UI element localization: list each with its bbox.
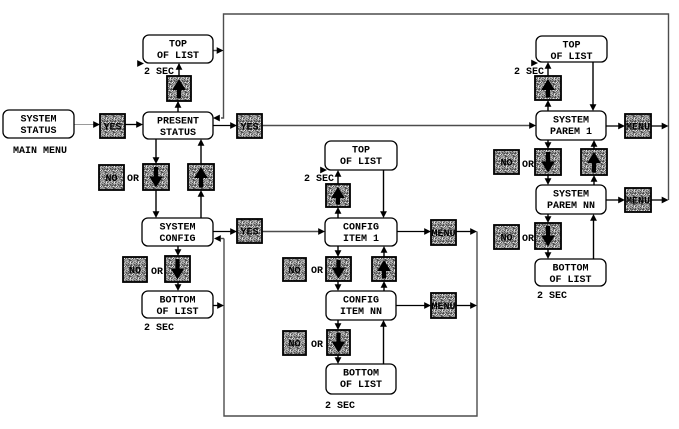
svg-text:TOP: TOP <box>562 41 580 52</box>
svg-text:2 SEC: 2 SEC <box>144 323 174 334</box>
box SYSTEM STATUS <box>3 110 74 138</box>
button MENU (system parem 1) <box>625 114 651 138</box>
button YES (main menu) <box>100 114 125 138</box>
wire present status down to DOWN button <box>155 139 157 159</box>
button DOWN (left) <box>143 164 169 190</box>
button YES (present status) <box>237 114 262 138</box>
wire system config down to DOWN button <box>177 246 179 251</box>
svg-text:YES: YES <box>240 228 258 239</box>
svg-text:OF LIST: OF LIST <box>549 275 591 286</box>
svg-text:CONFIG: CONFIG <box>159 234 195 245</box>
button YES (system config) <box>237 219 262 243</box>
svg-text:SYSTEM: SYSTEM <box>20 115 56 126</box>
wire return rail top (down to present status) <box>224 14 669 200</box>
button MENU (system parem nn) <box>625 188 651 212</box>
arrowhead into right rail (menu parem 1) <box>662 123 669 130</box>
button UP (center mid) <box>372 257 396 281</box>
svg-text:MENU: MENU <box>626 123 650 134</box>
wire MENU to return rail (item nn) <box>456 305 471 307</box>
svg-text:NO: NO <box>105 174 117 185</box>
wire UP button to top of list (left) <box>178 64 180 76</box>
arrowhead into return rail (top of list left) <box>217 47 224 54</box>
arrowhead into config item nn (from bottom of list) <box>380 320 387 327</box>
wire config item 1 to MENU <box>397 231 426 233</box>
box TOP OF LIST (right) <box>536 36 607 63</box>
box TOP OF LIST (center) <box>325 141 397 170</box>
wire rail arrow into system config <box>221 238 224 240</box>
box BOTTOM OF LIST (left) <box>142 291 213 318</box>
box TOP OF LIST (left) <box>143 35 213 63</box>
arrowhead into DOWN button (left) <box>153 157 160 164</box>
button DOWN (left lower) <box>165 256 190 282</box>
button NO (left upper) <box>99 165 124 190</box>
wire MENU to return rail (item 1) <box>456 231 471 233</box>
wire YES to system parem 1 (long) <box>262 125 530 127</box>
svg-text:YES: YES <box>240 123 258 134</box>
arrowhead into system parem 1 (from up) <box>591 140 598 147</box>
svg-text:OR: OR <box>127 174 139 185</box>
svg-text:OF LIST: OF LIST <box>157 51 199 62</box>
wire bottom of list (left) to return rail <box>213 305 219 307</box>
wire YES to config item 1 <box>262 231 321 233</box>
arrowhead into config item 1 (from YES) <box>318 228 325 235</box>
arrowhead into DOWN button (center lower) <box>335 323 342 330</box>
arrowhead into system config (return rail) <box>214 235 221 242</box>
svg-text:OR: OR <box>151 267 163 278</box>
box CONFIG ITEM NN <box>326 291 396 320</box>
svg-text:PAREM NN: PAREM NN <box>547 201 595 212</box>
svg-text:PAREM 1: PAREM 1 <box>550 127 592 138</box>
arrowhead into DOWN button (right) <box>545 142 552 149</box>
wire config item 1 up to UP button <box>337 212 339 218</box>
svg-text:OF LIST: OF LIST <box>340 380 382 391</box>
svg-text:2 SEC: 2 SEC <box>514 67 544 78</box>
arrowhead 2 SEC stub (top of list left) <box>137 60 144 67</box>
svg-text:OR: OR <box>522 160 534 171</box>
arrowhead into top of list center <box>335 170 342 177</box>
wire bottom of list (right) up to system parem nn <box>593 219 595 259</box>
svg-text:2 SEC: 2 SEC <box>144 67 174 78</box>
box BOTTOM OF LIST (right) <box>535 259 606 286</box>
svg-text:OR: OR <box>311 340 323 351</box>
arrowhead into MENU (config item nn) <box>424 302 431 309</box>
wire system config up to UP button <box>200 195 202 218</box>
svg-text:STATUS: STATUS <box>20 126 56 137</box>
wire system parem 1 to MENU <box>606 125 620 127</box>
wire top of list (right) down to system parem 1 <box>592 62 594 106</box>
wire config item nn to MENU <box>396 305 426 307</box>
arrowhead into bottom of list right <box>545 252 552 259</box>
svg-text:NO: NO <box>500 234 512 245</box>
button DOWN (right) <box>535 149 561 175</box>
button NO (right upper) <box>494 150 519 174</box>
box PRESENT STATUS <box>143 112 213 139</box>
svg-text:MAIN MENU: MAIN MENU <box>13 146 67 157</box>
button NO (right lower) <box>494 225 519 249</box>
arrowhead into DOWN button (center) <box>335 250 342 257</box>
svg-text:STATUS: STATUS <box>160 128 196 139</box>
wire UP button to system parem 1 <box>593 145 595 149</box>
svg-text:CONFIG: CONFIG <box>343 223 379 234</box>
svg-text:SYSTEM: SYSTEM <box>553 190 589 201</box>
arrowhead into config item nn (from down) <box>335 284 342 291</box>
button MENU (config item 1) <box>431 220 456 245</box>
wire present status to YES <box>213 125 232 127</box>
arrowhead into return rail (bottom of list left) <box>217 302 224 309</box>
button MENU (config item nn) <box>431 293 456 318</box>
svg-text:SYSTEM: SYSTEM <box>159 223 195 234</box>
wire system parem nn down to DOWN button <box>547 214 549 218</box>
svg-text:ITEM 1: ITEM 1 <box>343 234 379 245</box>
svg-text:MENU: MENU <box>626 197 650 208</box>
button UP (right top) <box>535 76 561 100</box>
wire DOWN button to system config <box>155 190 157 213</box>
arrowhead into YES (present status) <box>230 122 237 129</box>
svg-text:2 SEC: 2 SEC <box>304 174 334 185</box>
arrowhead into config item 1 (from up) <box>381 246 388 253</box>
wire system config to YES <box>213 231 232 233</box>
box SYSTEM CONFIG <box>142 218 213 246</box>
svg-text:2 SEC: 2 SEC <box>325 401 355 412</box>
arrowhead into present status (from YES) <box>136 121 143 128</box>
arrowhead into DOWN button (left lower) <box>175 249 182 256</box>
arrowhead into MENU (system parem 1) <box>618 123 625 130</box>
svg-text:OF LIST: OF LIST <box>156 307 198 318</box>
wire UP button to top of list (right) <box>547 67 549 76</box>
wire YES to present status <box>125 124 138 126</box>
arrowhead into system parem nn (from down) <box>545 178 552 185</box>
wire UP button to config item 1 <box>383 251 385 257</box>
wire DOWN button to system parem nn <box>547 175 549 180</box>
arrowhead into top of list right <box>545 62 552 69</box>
svg-text:MENU: MENU <box>431 229 455 240</box>
box BOTTOM OF LIST (center) <box>326 364 396 394</box>
arrowhead into UP button (left mid) <box>198 190 205 197</box>
arrowhead into UP button (center top) <box>335 207 342 214</box>
wire system parem nn to MENU <box>606 199 620 201</box>
wire DOWN button to config item nn <box>337 281 339 286</box>
button UP (left top) <box>167 76 191 101</box>
arrowhead into UP button (center mid) <box>381 281 388 288</box>
svg-text:OR: OR <box>522 234 534 245</box>
box SYSTEM PAREM 1 <box>536 111 606 140</box>
wire system parem nn up to UP button <box>593 180 595 185</box>
arrowhead into present status (from rail) <box>213 115 220 122</box>
wire config item nn down to DOWN button <box>337 320 339 325</box>
svg-text:BOTTOM: BOTTOM <box>159 296 195 307</box>
arrowhead into present status (from up) <box>198 139 205 146</box>
arrowhead into return rail (menu item nn) <box>470 302 477 309</box>
wire system parem 1 up to UP button <box>547 105 549 111</box>
wire return rail to system config <box>224 232 477 417</box>
arrowhead into UP button (right top) <box>545 100 552 107</box>
arrowhead into UP button (right mid) <box>591 175 598 182</box>
svg-text:TOP: TOP <box>352 146 370 157</box>
button NO (center lower) <box>283 331 306 355</box>
wire DOWN button to bottom of list (right) <box>547 249 549 254</box>
arrowhead into system parem 1 (from top of list) <box>590 104 597 111</box>
button DOWN (center) <box>326 257 351 281</box>
wire config item 1 down to DOWN button <box>337 246 339 252</box>
button DOWN (right lower) <box>535 223 561 249</box>
wire config item nn up to UP button <box>383 286 385 291</box>
svg-text:NO: NO <box>288 266 300 277</box>
svg-text:TOP: TOP <box>169 40 187 51</box>
wire DOWN button to bottom of list (left) <box>177 282 179 286</box>
wire UP button to top of list (center) <box>337 175 339 184</box>
svg-text:OF LIST: OF LIST <box>340 157 382 168</box>
arrowhead 2 SEC stub (top of list center) <box>320 167 327 174</box>
wire UP button to present status <box>200 144 202 164</box>
arrowhead into bottom of list center <box>335 357 342 364</box>
svg-text:YES: YES <box>103 123 121 134</box>
svg-text:PRESENT: PRESENT <box>157 117 199 128</box>
arrowhead into system parem nn (from bottom of list) <box>590 214 597 221</box>
button UP (left mid) <box>188 164 214 190</box>
wire top of list (center) down to config item 1 <box>383 170 385 213</box>
wire system parem 1 down to DOWN button <box>547 140 549 144</box>
svg-text:2 SEC: 2 SEC <box>537 291 567 302</box>
svg-text:MENU: MENU <box>431 302 455 313</box>
button UP (right mid) <box>581 149 607 175</box>
button DOWN (center lower) <box>327 330 350 355</box>
button NO (center upper) <box>283 258 306 281</box>
arrowhead into YES (main menu) <box>93 121 100 128</box>
arrowhead into bottom of list left <box>175 284 182 291</box>
arrowhead into MENU (config item 1) <box>424 228 431 235</box>
wire rail into present status <box>221 51 224 119</box>
svg-text:CONFIG: CONFIG <box>343 296 379 307</box>
arrowhead into system parem 1 (long YES) <box>529 122 536 129</box>
wire MENU to right rail (parem nn) <box>651 199 663 201</box>
arrowhead into right rail (menu parem nn) <box>662 197 669 204</box>
arrowhead into system config (from down) <box>153 211 160 218</box>
box CONFIG ITEM 1 <box>325 218 397 246</box>
wire top of list (left) to return rail <box>213 50 218 52</box>
wire MENU to right rail (parem 1) <box>651 125 663 127</box>
wire DOWN button to bottom of list (center) <box>337 355 339 359</box>
svg-text:OR: OR <box>311 266 323 277</box>
arrowhead into DOWN button (right lower) <box>545 216 552 223</box>
button NO (left lower) <box>123 257 147 282</box>
svg-text:ITEM NN: ITEM NN <box>340 307 382 318</box>
arrowhead into YES (system config) <box>230 228 237 235</box>
button UP (center top) <box>326 184 350 207</box>
svg-text:NO: NO <box>129 266 141 277</box>
svg-text:NO: NO <box>500 159 512 170</box>
svg-text:BOTTOM: BOTTOM <box>552 264 588 275</box>
arrowhead into UP button (left top) <box>175 101 182 108</box>
svg-text:NO: NO <box>288 340 300 351</box>
wire bottom of list (center) up to config item nn <box>383 325 385 364</box>
wire present status up to UP button <box>177 102 179 112</box>
arrowhead into MENU (system parem nn) <box>618 197 625 204</box>
arrowhead 2 SEC stub (top of list right) <box>531 60 538 67</box>
arrowhead into config item 1 (from top of list) <box>380 211 387 218</box>
arrowhead into return rail (menu item 1) <box>470 228 477 235</box>
svg-text:SYSTEM: SYSTEM <box>553 116 589 127</box>
svg-text:OF LIST: OF LIST <box>550 52 592 63</box>
box SYSTEM PAREM NN <box>536 185 606 214</box>
svg-text:BOTTOM: BOTTOM <box>343 369 379 380</box>
wire main menu to YES <box>74 124 95 126</box>
arrowhead into top of list left <box>176 63 183 70</box>
